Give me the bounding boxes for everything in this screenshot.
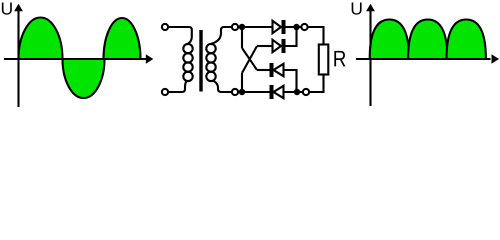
- label U (output voltage): [352, 2, 362, 14]
- waveform input half-wave 2 (negative): [63, 59, 105, 98]
- inductor L2 secondary winding: [206, 44, 215, 53]
- bridge rectifier: [232, 20, 309, 99]
- terminal secondary bottom: [232, 89, 238, 95]
- waveform output rectified hump 3: [447, 20, 486, 60]
- diode D4: [270, 85, 274, 99]
- junction dot top left: [239, 24, 245, 30]
- wire secondary bottom: [213, 81, 232, 93]
- terminal output bottom: [303, 89, 309, 95]
- diode D1: [273, 21, 282, 33]
- label R: [334, 51, 345, 67]
- axis Y arrowhead output graph: [366, 4, 375, 12]
- junction dot top right: [293, 24, 299, 30]
- diode D3: [257, 69, 270, 71]
- resistor R body: [319, 45, 329, 75]
- wire D4 to bottom right: [284, 91, 304, 93]
- load resistor R: [308, 27, 346, 92]
- wire primary bottom: [168, 81, 187, 92]
- wire secondary top: [211, 27, 232, 44]
- axis Y output graph: [369, 9, 371, 106]
- wire top rail: [238, 26, 273, 28]
- wire resistor to bottom rail: [309, 75, 324, 93]
- waveform input half-wave 1 (positive): [19, 17, 63, 59]
- axis Y input graph: [17, 9, 19, 107]
- axis Y arrowhead input graph: [14, 4, 23, 12]
- output voltage graph (right): [352, 2, 499, 106]
- wire diagonal to D3: [242, 48, 257, 70]
- terminal secondary top: [232, 24, 238, 30]
- transformer T1: [162, 24, 232, 95]
- wire bottom rail left: [238, 91, 270, 93]
- input voltage graph (left): [2, 2, 153, 107]
- wire primary top: [168, 27, 192, 44]
- waveform input half-wave 3 (positive): [104, 18, 141, 59]
- terminal output top: [301, 24, 307, 30]
- junction dot bottom right: [294, 89, 300, 95]
- waveform output rectified hump 2: [408, 20, 447, 60]
- label U (input voltage): [2, 2, 12, 14]
- axis X input graph: [4, 58, 146, 60]
- terminal primary top: [162, 24, 168, 30]
- inductor L1 primary winding: [183, 44, 192, 53]
- wire stub from top junction: [241, 27, 243, 48]
- diode D2: [257, 45, 273, 47]
- wire D3 down to bottom rail: [284, 70, 297, 92]
- junction dot bottom left: [239, 89, 245, 95]
- transformer core: [199, 30, 202, 92]
- wire diagonal to D2: [242, 46, 257, 73]
- wire stub from bottom junction: [241, 73, 243, 92]
- axis X output graph: [356, 58, 491, 60]
- wire D1 to top junction right: [286, 26, 302, 28]
- wire D2 up to top rail: [286, 27, 297, 46]
- axis X arrowhead output graph: [492, 54, 500, 63]
- waveform output rectified hump 1: [370, 20, 409, 60]
- wire top rail to resistor: [308, 27, 324, 45]
- terminal primary bottom: [162, 89, 168, 95]
- axis X arrowhead input graph: [146, 54, 154, 63]
